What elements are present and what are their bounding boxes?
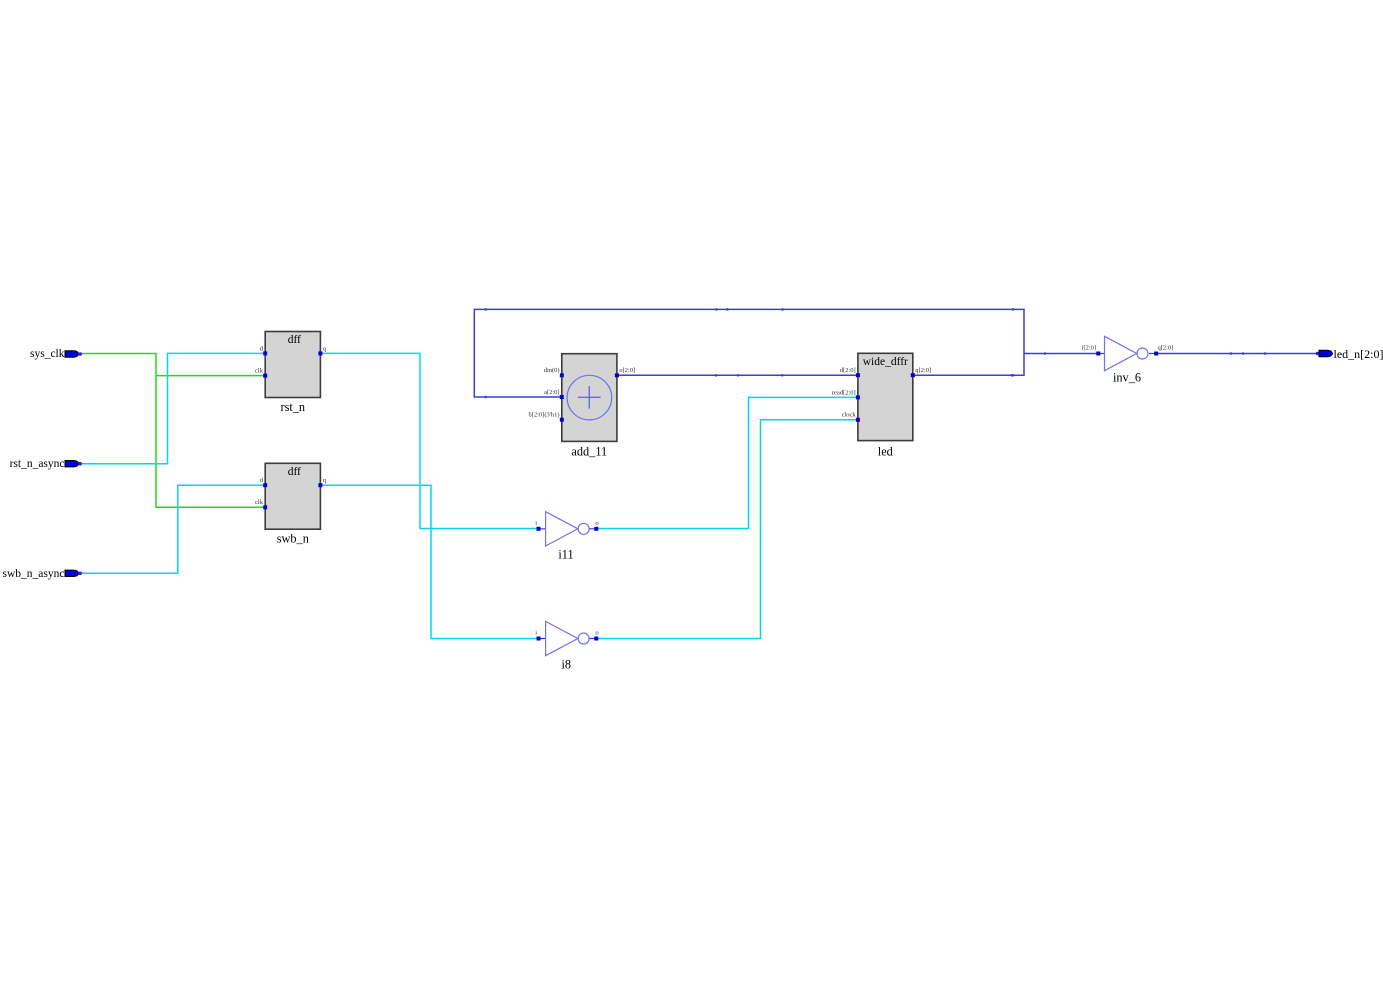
svg-text:led_n[2:0]: led_n[2:0]	[1334, 347, 1383, 361]
svg-text:i: i	[535, 630, 537, 637]
svg-text:i8: i8	[562, 658, 572, 672]
pin i	[537, 637, 541, 641]
svg-text:rst_n: rst_n	[280, 400, 305, 414]
svg-text:q[2:0]: q[2:0]	[915, 367, 931, 374]
wire net i11 output to led read[2:0] (cyan)	[596, 397, 858, 528]
wire net i8 output to led clock (cyan)	[596, 420, 858, 639]
svg-text:dff: dff	[288, 334, 301, 346]
pin o	[594, 527, 598, 531]
register wide_dffr led	[832, 353, 931, 458]
svg-text:add_11: add_11	[571, 445, 607, 459]
svg-text:dff: dff	[288, 466, 301, 478]
inverter inv_6	[1082, 336, 1174, 384]
svg-text:b[2:0](3'h1): b[2:0](3'h1)	[528, 412, 559, 419]
wire net inv_6.q to output port led_n[2:0] (blue)	[1156, 353, 1317, 355]
pin d	[263, 483, 267, 487]
svg-text:inv_6: inv_6	[1113, 371, 1141, 385]
wire branch led.q to inv_6 input (blue)	[1024, 353, 1098, 355]
svg-text:clk: clk	[255, 368, 264, 375]
pin q[2:0]	[911, 373, 915, 377]
pin o[2:0]	[615, 373, 619, 377]
svg-text:clk: clk	[255, 499, 264, 506]
svg-text:din(0): din(0)	[544, 367, 560, 374]
svg-text:d[2:0]: d[2:0]	[840, 367, 856, 374]
pin clock	[856, 418, 860, 422]
svg-text:rst_n_async: rst_n_async	[10, 458, 65, 470]
pin lead stubs	[1098, 353, 1156, 355]
output port led_n[2:0]	[1316, 347, 1383, 361]
svg-text:wide_dffr: wide_dffr	[863, 356, 908, 368]
wire sys_clk branch to rst_n clk	[156, 375, 265, 377]
svg-text:a[2:0]: a[2:0]	[544, 389, 560, 396]
svg-text:i[2:0]: i[2:0]	[1082, 345, 1096, 352]
svg-text:q[2:0]: q[2:0]	[1158, 345, 1174, 352]
junction dots on feedback wire	[484, 308, 1046, 398]
svg-text:o[2:0]: o[2:0]	[619, 367, 635, 374]
pin i	[537, 527, 541, 531]
wire net rst_n.q to i11 input (cyan)	[320, 353, 538, 528]
pin q	[318, 351, 322, 355]
svg-text:i11: i11	[558, 547, 573, 561]
dff rst_n	[255, 332, 327, 414]
adder add_11	[528, 354, 635, 459]
pin read[2:0]	[856, 395, 860, 399]
inverter i11	[535, 512, 598, 562]
pin lead stubs	[539, 528, 597, 530]
svg-text:sys_clk: sys_clk	[30, 348, 65, 360]
svg-text:clock: clock	[842, 412, 857, 419]
svg-text:led: led	[878, 445, 893, 459]
pin q[2:0]	[1154, 352, 1158, 356]
input port sys_clk	[30, 348, 82, 360]
pin o	[594, 637, 598, 641]
junction dots on add_11.o to led.d wire	[715, 374, 1014, 377]
svg-text:swb_n_async: swb_n_async	[3, 568, 65, 580]
pin din(0)	[560, 373, 564, 377]
wire net add_11.o to led.d (blue)	[617, 374, 858, 376]
pin d	[263, 351, 267, 355]
pin lead stubs	[539, 638, 597, 640]
pin i[2:0]	[1096, 352, 1100, 356]
wire net sys_clk (green) from port to junction	[80, 354, 265, 508]
svg-text:read[2:0]: read[2:0]	[832, 389, 856, 396]
pin q	[318, 483, 322, 487]
dff swb_n	[255, 463, 327, 545]
svg-text:o: o	[595, 520, 598, 527]
input port rst_n_async	[10, 458, 82, 470]
wire net rst_n_async (cyan) to rst_n d	[80, 353, 265, 463]
pin d[2:0]	[856, 373, 860, 377]
pin a[2:0]	[560, 395, 564, 399]
wire net swb_n.q to i8 input (cyan)	[320, 485, 538, 638]
input port swb_n_async	[3, 568, 82, 580]
wire net swb_n_async (cyan) to swb_n d	[80, 485, 265, 573]
svg-text:swb_n: swb_n	[277, 532, 309, 546]
pin b[2:0] constant 3'h1	[560, 418, 564, 422]
wire net led.q feedback loop to add_11.a (blue)	[474, 309, 1024, 397]
svg-text:i: i	[535, 520, 537, 527]
junction dots on inv_6 output wire	[1230, 352, 1267, 355]
pin clk	[263, 505, 267, 509]
inverter i8	[535, 621, 598, 671]
adder circle-plus symbol	[567, 375, 612, 420]
pin clk	[263, 374, 267, 378]
svg-text:o: o	[595, 630, 598, 637]
